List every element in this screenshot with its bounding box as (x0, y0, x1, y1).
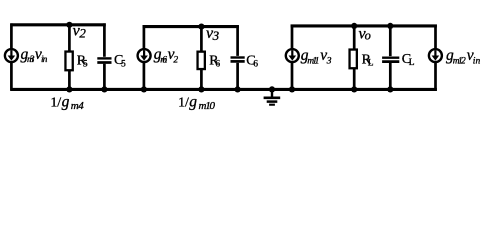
capacitor C6 (230, 56, 245, 63)
junction dot C5 bottom (101, 86, 107, 92)
junction dot R6 bottom (198, 86, 204, 92)
wire branch CL (389, 26, 392, 90)
wire branch gm12 (434, 25, 437, 91)
capacitor C5 (97, 57, 112, 64)
wire branch gm11 (291, 25, 294, 90)
node vo junction dot (351, 23, 357, 29)
wire top rail section 2 (143, 25, 239, 28)
wire top rail section 3 (291, 24, 437, 27)
node v3 junction dot (198, 24, 204, 30)
resistor R5 (65, 52, 72, 71)
resistor RL (350, 50, 357, 69)
wire branch gm3 (10, 23, 13, 90)
svg-text:v3: v3 (206, 25, 220, 43)
junction dot gm11 bottom (289, 86, 295, 92)
junction dot C6 bottom (235, 86, 241, 92)
resistor R6 (198, 52, 205, 69)
wire bottom rail (10, 88, 437, 91)
wire branch C5 (103, 23, 106, 89)
wire branch R6 (200, 27, 203, 90)
junction dot CL top (387, 23, 393, 29)
ground (264, 89, 281, 104)
junction dot CL bottom (387, 86, 393, 92)
capacitor CL (382, 56, 399, 63)
wire branch RL (353, 26, 356, 90)
wire top rail section 1 (10, 23, 105, 26)
junction dot RL bottom (351, 86, 357, 92)
svg-text:vo: vo (359, 26, 371, 43)
current source gm6 (138, 49, 151, 62)
svg-text:v2: v2 (73, 23, 87, 41)
junction dot ground (269, 86, 275, 92)
junction dot gm6 bottom (141, 86, 147, 92)
current source gm12 (429, 49, 442, 62)
current source gm3 (5, 49, 18, 62)
node v2 junction dot (66, 22, 72, 28)
wire branch gm6 (143, 25, 146, 89)
junction dot R5 bottom (66, 86, 72, 92)
wire branch R5 (68, 25, 71, 90)
wire branch C6 (236, 25, 239, 89)
current source gm11 (286, 49, 299, 62)
